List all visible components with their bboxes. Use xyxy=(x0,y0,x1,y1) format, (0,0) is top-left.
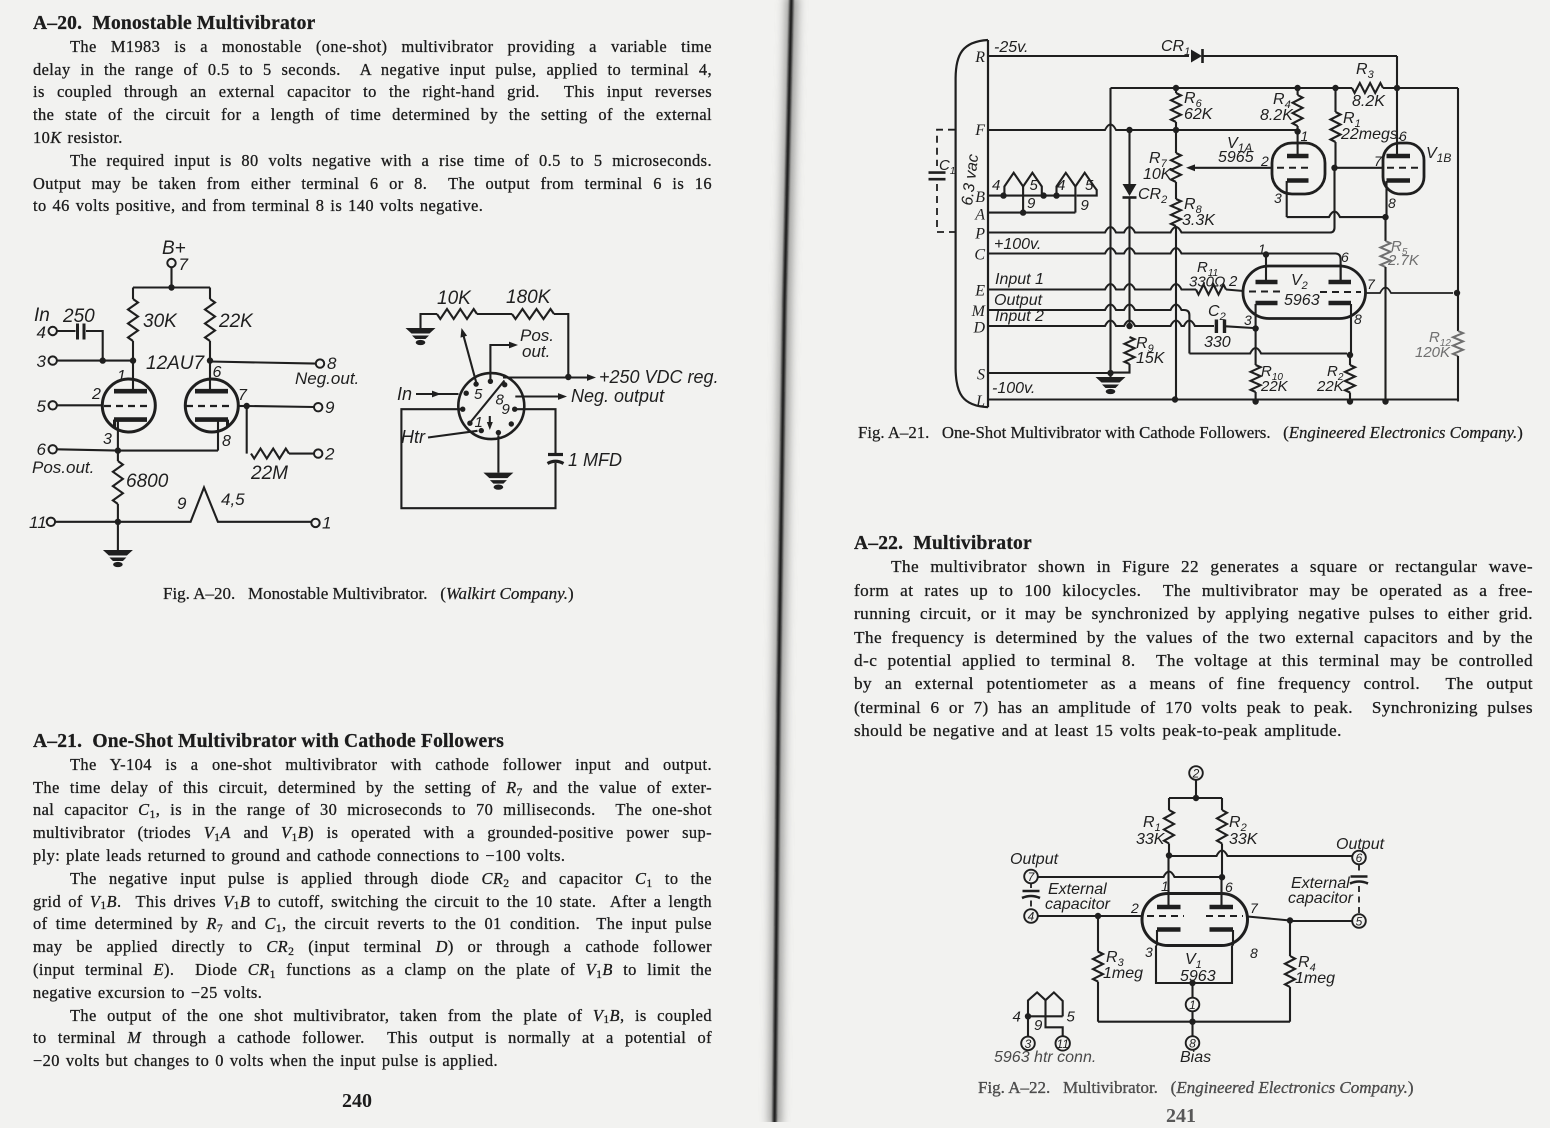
svg-text:330: 330 xyxy=(1204,334,1231,351)
svg-text:Htr: Htr xyxy=(401,427,426,447)
svg-text:9: 9 xyxy=(1027,195,1036,212)
svg-text:6: 6 xyxy=(1356,851,1363,865)
socket left loop wire xyxy=(401,409,555,508)
svg-text:8: 8 xyxy=(222,433,231,450)
resistor 6800 xyxy=(113,461,123,504)
external capacitor right xyxy=(1358,865,1360,873)
P line xyxy=(988,227,1330,233)
svg-text:9: 9 xyxy=(1034,1017,1043,1034)
socket pin xyxy=(464,391,469,396)
triode V1B xyxy=(1383,143,1424,194)
svg-text:2: 2 xyxy=(1260,153,1269,169)
svg-text:4: 4 xyxy=(37,323,46,342)
svg-text:330Ω: 330Ω xyxy=(1189,274,1225,291)
socket right loop wire xyxy=(517,409,556,454)
page number 240 xyxy=(342,1090,372,1113)
ground fig A-21 xyxy=(1109,373,1111,377)
socket pin xyxy=(473,381,478,386)
caption Fig A-22 xyxy=(978,1078,1414,1098)
svg-text:2: 2 xyxy=(1130,900,1139,916)
resistor 180K xyxy=(477,313,512,315)
resistor 22K xyxy=(209,288,211,300)
twin triode V2 5963 xyxy=(1243,266,1366,319)
svg-text:5: 5 xyxy=(1085,177,1094,194)
V1B grid wire xyxy=(1336,167,1383,169)
svg-text:1: 1 xyxy=(322,514,331,533)
F line xyxy=(988,125,1298,131)
external capacitor left xyxy=(1030,883,1032,888)
svg-text:22K: 22K xyxy=(1316,378,1345,395)
svg-text:P: P xyxy=(974,226,985,243)
socket pin xyxy=(509,421,514,426)
svg-text:M: M xyxy=(971,303,987,320)
wire CR1 to V1B plate xyxy=(1396,56,1398,88)
svg-text:A: A xyxy=(974,207,985,224)
svg-text:30K: 30K xyxy=(143,311,178,332)
svg-text:Input 2: Input 2 xyxy=(995,308,1044,325)
cathode bus V1A-V1B xyxy=(1287,212,1386,218)
caption Fig A-20 xyxy=(163,584,574,604)
svg-text:33K: 33K xyxy=(1136,831,1166,848)
svg-text:F: F xyxy=(974,122,985,139)
ground symbol xyxy=(117,522,119,550)
resistor R8 3.3K xyxy=(1175,182,1177,199)
bias rail xyxy=(1098,1021,1290,1023)
ground bus vertical xyxy=(1109,88,1111,373)
svg-text:R3: R3 xyxy=(1356,61,1375,81)
svg-text:4: 4 xyxy=(992,177,1000,194)
svg-text:120K: 120K xyxy=(1415,344,1451,361)
terminal 1 fig A-22 xyxy=(1191,983,1193,998)
svg-text:7: 7 xyxy=(1367,276,1376,292)
tube socket xyxy=(458,373,524,439)
capacitor 1 MFD xyxy=(548,453,563,456)
page number 241 xyxy=(1166,1105,1196,1128)
L line xyxy=(988,398,1458,400)
svg-text:4: 4 xyxy=(1013,1009,1021,1026)
heater winding pair 1 xyxy=(1004,173,1041,196)
section A-21 heading and paragraphs xyxy=(33,731,712,1073)
right rail xyxy=(1457,88,1459,331)
svg-text:L: L xyxy=(975,393,985,410)
right triode plate lead pin 6 xyxy=(209,361,211,390)
+250 VDC line xyxy=(471,381,505,422)
svg-text:3: 3 xyxy=(1274,190,1282,206)
left triode plate lead pin 1 xyxy=(132,361,134,390)
svg-text:8.2K: 8.2K xyxy=(1352,93,1386,110)
svg-text:C: C xyxy=(974,247,985,264)
svg-text:CR2: CR2 xyxy=(1138,186,1167,206)
svg-text:V1B: V1B xyxy=(1426,145,1451,165)
socket pin xyxy=(488,379,493,384)
svg-text:6: 6 xyxy=(1399,128,1407,144)
svg-text:62K: 62K xyxy=(1184,106,1214,123)
terminal 2 fig A-22 xyxy=(1189,766,1203,780)
svg-text:11: 11 xyxy=(29,513,47,532)
svg-text:22megs.: 22megs. xyxy=(1340,126,1402,143)
svg-text:8: 8 xyxy=(1250,945,1258,961)
terminal 1 xyxy=(311,519,319,527)
resistor R6 62K xyxy=(1175,88,1177,93)
svg-text:3: 3 xyxy=(1244,312,1252,328)
terminal 8 Bias xyxy=(1191,1022,1193,1037)
svg-text:15K: 15K xyxy=(1136,350,1166,367)
svg-text:6800: 6800 xyxy=(126,471,169,492)
svg-text:3: 3 xyxy=(103,431,112,448)
left triode of 12AU7 xyxy=(102,379,155,432)
socket pin to ground xyxy=(497,435,499,472)
wire grid7 to terminal 5 xyxy=(1248,917,1291,921)
heater connection tents xyxy=(1028,992,1063,1016)
svg-text:5963: 5963 xyxy=(1180,968,1216,985)
svg-text:7: 7 xyxy=(1250,900,1259,916)
svg-text:2: 2 xyxy=(1192,767,1200,781)
terminal 8 neg out xyxy=(210,362,316,364)
wire 180K to rail xyxy=(554,314,568,377)
svg-text:9: 9 xyxy=(325,398,335,417)
svg-text:1: 1 xyxy=(1161,878,1169,894)
svg-text:10K: 10K xyxy=(1143,166,1173,183)
resistor 22M xyxy=(246,406,248,454)
capacitor C2 330 xyxy=(1215,320,1218,334)
terminal 9 xyxy=(238,405,246,407)
B line xyxy=(988,195,1076,197)
plate feed bar xyxy=(1169,797,1222,799)
diode CR2 xyxy=(1128,130,1130,184)
svg-text:6: 6 xyxy=(37,440,47,459)
svg-text:R: R xyxy=(974,49,985,66)
resistor R3 1meg xyxy=(1097,916,1099,952)
svg-text:3: 3 xyxy=(37,352,47,371)
svg-text:6: 6 xyxy=(1225,879,1233,895)
svg-text:4,5: 4,5 xyxy=(221,490,245,509)
svg-text:Pos.out.: Pos.out. xyxy=(32,458,94,477)
pos out tap wire xyxy=(490,345,514,380)
svg-text:1: 1 xyxy=(1258,241,1266,257)
resistor R2 33K fig A-22 xyxy=(1221,798,1223,810)
svg-text:5: 5 xyxy=(1030,177,1039,194)
neg output arrow xyxy=(515,395,561,397)
svg-text:1: 1 xyxy=(475,414,483,431)
capacitor C1 external dashed xyxy=(937,130,955,166)
svg-text:5: 5 xyxy=(1067,1009,1076,1026)
svg-text:2: 2 xyxy=(1228,273,1238,290)
svg-text:1meg: 1meg xyxy=(1103,965,1143,982)
svg-text:2: 2 xyxy=(91,386,101,403)
svg-text:4: 4 xyxy=(1057,177,1065,194)
svg-text:D: D xyxy=(972,320,985,337)
svg-text:3.3K: 3.3K xyxy=(1182,212,1216,229)
svg-text:4: 4 xyxy=(1028,910,1035,924)
svg-text:Output: Output xyxy=(1010,851,1059,868)
svg-text:8: 8 xyxy=(1388,195,1396,211)
right triode of 12AU7 xyxy=(185,379,238,432)
wire pin3 to R10 xyxy=(1255,330,1257,365)
svg-text:9: 9 xyxy=(177,494,187,513)
svg-text:33K: 33K xyxy=(1229,831,1259,848)
resistor R1 22megs xyxy=(1334,88,1336,112)
svg-text:capacitor: capacitor xyxy=(1288,890,1354,907)
svg-text:22K: 22K xyxy=(218,311,254,332)
svg-text:5965: 5965 xyxy=(1218,149,1254,166)
resistor R1 33K xyxy=(1168,798,1170,810)
resistor R2 22K xyxy=(1347,352,1353,358)
capacitor 250pf xyxy=(57,330,76,332)
section A-22 heading and paragraph xyxy=(854,532,1533,743)
svg-text:C1: C1 xyxy=(939,157,955,177)
resistor R10 22K xyxy=(1251,365,1261,392)
socket pin xyxy=(479,428,484,433)
socket pin xyxy=(502,382,507,387)
svg-text:9: 9 xyxy=(1081,197,1090,214)
V1 label box xyxy=(1156,930,1158,946)
svg-text:8: 8 xyxy=(1354,311,1362,327)
svg-text:5963 htr conn.: 5963 htr conn. xyxy=(994,1049,1096,1066)
svg-text:-100v.: -100v. xyxy=(992,380,1035,397)
resistor 30K xyxy=(132,288,134,300)
svg-text:V2: V2 xyxy=(1291,272,1308,292)
triode V1A xyxy=(1272,143,1325,194)
svg-text:1: 1 xyxy=(1189,998,1196,1012)
section A-20 heading and paragraphs xyxy=(33,13,712,218)
twin triode V1 5963 fig A-22 xyxy=(1142,894,1248,946)
svg-text:Neg. output: Neg. output xyxy=(571,386,665,406)
S line xyxy=(988,372,1111,374)
wire plate1 to output6 xyxy=(1169,851,1352,857)
svg-text:22K: 22K xyxy=(1260,378,1289,395)
resistor R5 2.7K xyxy=(1384,217,1386,241)
svg-text:Input 1: Input 1 xyxy=(995,271,1044,288)
socket key arrow xyxy=(489,416,491,425)
pot wiper arrow xyxy=(463,332,477,384)
terminal 5 xyxy=(1352,914,1366,928)
svg-text:2.7K: 2.7K xyxy=(1387,252,1420,269)
svg-text:8.2K: 8.2K xyxy=(1260,107,1294,124)
svg-text:1meg: 1meg xyxy=(1295,970,1335,987)
svg-text:7: 7 xyxy=(179,255,189,274)
svg-text:In: In xyxy=(397,384,412,404)
heater winding pair 2 xyxy=(1057,173,1097,196)
socket pin xyxy=(467,421,472,426)
svg-text:Bias: Bias xyxy=(1180,1049,1211,1066)
svg-text:3: 3 xyxy=(1145,944,1153,960)
socket pin xyxy=(460,407,465,412)
svg-text:6: 6 xyxy=(1341,249,1349,265)
svg-text:7: 7 xyxy=(1374,153,1383,169)
terminal 3 htr xyxy=(1021,1037,1035,1051)
socket ground xyxy=(421,314,438,328)
svg-text:2: 2 xyxy=(324,445,335,464)
resistor R4 8.2K xyxy=(1297,88,1299,95)
terminal 11 htr xyxy=(1056,1036,1070,1050)
B+ rail xyxy=(1111,87,1353,89)
svg-text:S: S xyxy=(977,367,985,384)
potentiometer 10K xyxy=(437,309,477,319)
svg-text:capacitor: capacitor xyxy=(1045,896,1111,913)
terminal 4 xyxy=(1024,909,1038,923)
potentiometer R7 10K xyxy=(1171,153,1181,182)
svg-text:180K: 180K xyxy=(506,287,552,308)
svg-text:9: 9 xyxy=(502,401,511,418)
svg-text:5: 5 xyxy=(37,397,47,416)
cathode bus wire xyxy=(118,450,218,452)
svg-text:Neg.out.: Neg.out. xyxy=(295,369,359,388)
svg-text:1 MFD: 1 MFD xyxy=(568,450,622,470)
svg-text:5: 5 xyxy=(1356,915,1363,929)
svg-text:1: 1 xyxy=(1301,128,1309,144)
A line xyxy=(988,212,1075,214)
heater tap wire 9-4,5 xyxy=(55,488,311,522)
svg-text:E: E xyxy=(974,283,985,300)
caption Fig A-21 xyxy=(858,423,1523,443)
svg-text:5: 5 xyxy=(474,386,483,403)
svg-text:7: 7 xyxy=(238,387,248,404)
socket pin xyxy=(496,430,501,435)
svg-text:22M: 22M xyxy=(250,463,288,484)
wire output7 xyxy=(1038,872,1222,878)
svg-text:12AU7: 12AU7 xyxy=(146,353,206,374)
V2 grid-7 wire xyxy=(1366,288,1454,294)
svg-text:Output: Output xyxy=(994,292,1043,309)
svg-text:out.: out. xyxy=(522,342,550,361)
socket pin xyxy=(512,407,517,412)
svg-text:+250 VDC reg.: +250 VDC reg. xyxy=(599,367,719,387)
resistor R4 1meg xyxy=(1289,921,1291,957)
resistor R9 15K xyxy=(1125,337,1135,364)
svg-text:+100v.: +100v. xyxy=(994,236,1041,253)
plate supply rail xyxy=(133,286,210,288)
svg-text:-25v.: -25v. xyxy=(994,39,1028,56)
connector bracket xyxy=(956,40,988,407)
svg-text:10K: 10K xyxy=(437,288,472,309)
svg-text:5963: 5963 xyxy=(1284,292,1320,309)
